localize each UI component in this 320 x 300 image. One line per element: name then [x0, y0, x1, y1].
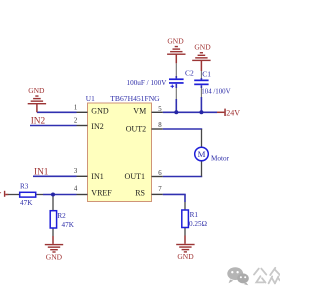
svg-text:IN1: IN1	[34, 167, 49, 177]
svg-text:4: 4	[74, 185, 78, 192]
svg-text:GND: GND	[194, 43, 211, 52]
svg-text:R3: R3	[20, 183, 29, 191]
svg-text:IN2: IN2	[31, 117, 46, 127]
svg-text:TB67H451FNG: TB67H451FNG	[110, 94, 160, 103]
svg-text:U1: U1	[86, 94, 95, 103]
svg-text:24V: 24V	[226, 109, 240, 118]
svg-text:100uF / 100V: 100uF / 100V	[127, 79, 168, 87]
svg-text:1: 1	[74, 104, 77, 111]
svg-text:VM: VM	[133, 106, 146, 115]
svg-text:M: M	[198, 149, 206, 159]
svg-text:VREF: VREF	[91, 188, 112, 197]
svg-text:GND: GND	[28, 86, 45, 95]
svg-text:C2: C2	[185, 69, 194, 78]
svg-text:OUT1: OUT1	[125, 172, 145, 181]
svg-text:GND: GND	[167, 36, 184, 45]
svg-text:IN2: IN2	[91, 122, 103, 131]
svg-text:R1: R1	[190, 211, 199, 219]
svg-text:R2: R2	[57, 212, 66, 220]
svg-text:IN1: IN1	[91, 172, 103, 181]
svg-text:GND: GND	[91, 106, 109, 115]
svg-text:47K: 47K	[20, 199, 33, 207]
svg-text:6: 6	[158, 170, 162, 177]
svg-text:47K: 47K	[62, 221, 75, 229]
svg-text:2: 2	[74, 118, 78, 125]
svg-text:3: 3	[74, 168, 78, 175]
svg-text:Motor: Motor	[211, 155, 230, 163]
svg-text:0.25Ω: 0.25Ω	[189, 220, 207, 228]
svg-text:5V: 5V	[0, 190, 2, 199]
svg-text:104 /100V: 104 /100V	[201, 89, 230, 96]
svg-text:GND: GND	[177, 252, 194, 261]
svg-text:7: 7	[158, 186, 162, 193]
svg-text:OUT2: OUT2	[126, 125, 146, 134]
svg-text:C1: C1	[202, 69, 211, 78]
svg-text:5: 5	[158, 106, 162, 113]
svg-text:8: 8	[158, 122, 162, 129]
svg-text:RS: RS	[135, 188, 145, 197]
svg-text:GND: GND	[46, 252, 63, 261]
